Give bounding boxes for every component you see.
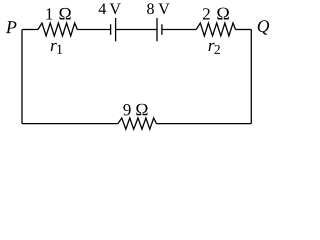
- resistor 9ohm zigzag: [118, 118, 156, 129]
- label r1: [51, 43, 62, 54]
- wire bottom-left to 9ohm: [22, 123, 118, 125]
- wire right side Q loop: [250, 30, 252, 124]
- wire 9ohm to bottom-right corner: [156, 123, 251, 125]
- battery 4V tall plate (positive): [115, 18, 117, 41]
- wire 8V battery to r2: [162, 29, 196, 31]
- wire left side P loop: [21, 30, 23, 124]
- label 8 V: [147, 3, 169, 14]
- node Q label: [258, 20, 269, 34]
- battery 8V tall plate (positive): [156, 18, 158, 41]
- resistor R2 2ohm zigzag: [196, 23, 235, 36]
- label 2 ohm: [203, 8, 229, 20]
- label 4 V: [99, 3, 121, 14]
- label 9 ohm: [123, 104, 147, 116]
- node P label: [6, 21, 17, 33]
- label 1 ohm: [46, 8, 70, 20]
- battery 4V short plate (negative): [110, 24, 112, 35]
- battery 8V short plate (negative): [161, 24, 163, 35]
- wire between batteries: [116, 29, 157, 31]
- wire r2 to Q corner: [236, 29, 252, 31]
- label r2: [209, 43, 220, 54]
- wire r1 to 4V battery: [77, 29, 110, 31]
- resistor R1 1ohm zigzag: [38, 23, 77, 36]
- wire top-left from P corner to r1: [22, 29, 38, 31]
